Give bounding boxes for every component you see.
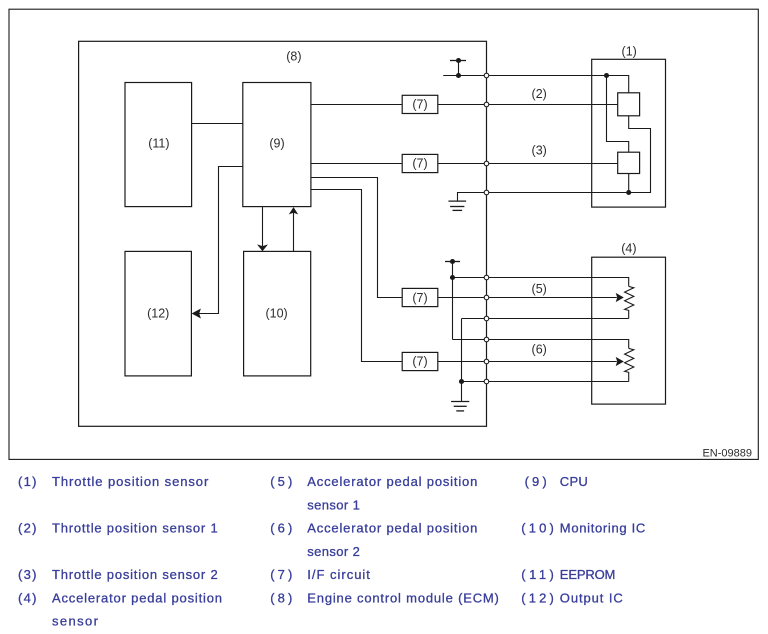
svg-text:sensor 2: sensor 2: [307, 544, 360, 559]
svg-text:(7): (7): [412, 97, 427, 111]
svg-text:Throttle position sensor 1: Throttle position sensor 1: [52, 521, 218, 536]
branch from node A to element 2: [607, 76, 629, 153]
wire 9 to IF3: [311, 178, 402, 298]
svg-text:Throttle position sensor 2: Throttle position sensor 2: [52, 567, 218, 582]
wiper arrowhead pot 2: [616, 357, 624, 366]
svg-text:(1): (1): [622, 44, 637, 58]
ground top hatch 2: [450, 206, 464, 208]
ground wire bottom vertical: [461, 319, 463, 402]
node A dot: [604, 73, 609, 78]
wire 9 to IF4: [311, 190, 402, 362]
power symbol top bar: [450, 60, 466, 62]
svg-text:(3): (3): [532, 144, 547, 158]
wire 9 to IF2: [311, 163, 402, 165]
svg-text:(4): (4): [18, 590, 37, 605]
wire power row to sensor 1: [443, 76, 629, 94]
connector pin circle row 340: [484, 337, 489, 342]
power symbol 2 bar: [445, 261, 460, 263]
arrowhead into block 12: [192, 309, 201, 319]
connector pin circle row 381: [484, 379, 489, 384]
connector pin circle row 163: [484, 161, 489, 166]
potentiometer 2 zigzag: [625, 348, 634, 381]
svg-text:(12): (12): [147, 306, 169, 320]
connector pin circle row 75: [484, 73, 489, 78]
I/F box 7 third: [402, 288, 438, 306]
arrowhead down into block 10: [257, 244, 268, 251]
wire IF2 to bus: [438, 163, 487, 165]
junction dot ground 2: [459, 379, 464, 384]
svg-text:(2): (2): [18, 521, 37, 536]
wire row return 1: [462, 318, 629, 320]
svg-text:(2): (2): [532, 87, 547, 101]
svg-text:(6): (6): [532, 343, 547, 357]
ground bottom hatch 1: [451, 401, 469, 403]
svg-text:(5): (5): [532, 282, 547, 296]
svg-text:EEPROM: EEPROM: [560, 567, 616, 582]
svg-text:(1): (1): [18, 474, 37, 489]
svg-text:(6): (6): [270, 521, 292, 536]
wire 9 to 12: [194, 167, 243, 314]
I/F box 7 second: [402, 154, 438, 172]
wire 2 bus to sensor element 1: [487, 104, 618, 106]
junction dot power top row: [456, 73, 461, 78]
svg-text:CPU: CPU: [560, 474, 588, 489]
connector pin circle row 298: [484, 295, 489, 300]
svg-text:Engine control module (ECM): Engine control module (ECM): [307, 590, 499, 605]
junction dot power 2 row: [450, 275, 455, 280]
I/F box 7 first: [402, 95, 438, 113]
svg-text:Output IC: Output IC: [560, 590, 623, 605]
svg-text:Accelerator pedal position: Accelerator pedal position: [307, 521, 477, 536]
wire row return 2: [462, 381, 629, 383]
svg-text:(10): (10): [265, 306, 287, 320]
svg-text:(7): (7): [270, 567, 292, 582]
wire row VC2: [453, 340, 629, 349]
wire 11 to 9: [192, 123, 243, 125]
junction dot power 2 bar: [450, 259, 455, 264]
connector pin circle row 278: [484, 275, 489, 280]
junction dot power top bar: [456, 58, 461, 63]
svg-text:sensor 1: sensor 1: [307, 497, 360, 512]
svg-text:(5): (5): [270, 474, 292, 489]
potentiometer 1 zigzag: [625, 286, 634, 318]
svg-text:sensor: sensor: [52, 614, 99, 629]
I/F box 7 fourth: [402, 352, 438, 370]
element 1 low side elbow: [629, 116, 651, 193]
ground bottom hatch 2: [454, 405, 467, 407]
hall element square 1: [618, 93, 640, 116]
node B dot: [626, 190, 631, 195]
EEPROM block 11: [125, 83, 192, 207]
wire ground row to sensor dot B: [487, 192, 629, 194]
arrowhead up into block 9: [289, 207, 298, 214]
svg-text:(11): (11): [148, 137, 169, 151]
element 2 low side: [628, 174, 630, 193]
connector pin circle row 192: [484, 190, 489, 195]
connector pin circle row 104: [484, 102, 489, 107]
svg-text:(7): (7): [412, 157, 427, 171]
svg-text:I/F circuit: I/F circuit: [307, 567, 370, 582]
connector pin circle row 318: [484, 316, 489, 321]
svg-text:Throttle position sensor: Throttle position sensor: [52, 474, 209, 489]
hall element square 2: [618, 152, 640, 173]
CPU block 9: [243, 83, 311, 207]
svg-text:(9): (9): [269, 137, 284, 151]
outer frame: [9, 9, 758, 459]
pedal sensor block 4: [592, 257, 666, 404]
svg-text:(7): (7): [412, 354, 427, 368]
ground bottom hatch 3: [456, 410, 464, 412]
wire row signal 6: [438, 361, 617, 363]
svg-text:(4): (4): [621, 241, 636, 255]
svg-text:(9): (9): [525, 474, 547, 489]
wire 9 to IF1: [311, 104, 402, 106]
ground wire top: [458, 193, 487, 202]
wire 3 bus to sensor element 2: [487, 163, 618, 165]
Output IC block 12: [125, 251, 191, 376]
Monitoring IC block 10: [244, 251, 311, 376]
throttle sensor block 1: [592, 59, 666, 207]
ground top hatch 1: [448, 200, 466, 202]
svg-text:EN-09889: EN-09889: [702, 448, 752, 460]
svg-text:(3): (3): [18, 567, 37, 582]
wiper arrowhead pot 1: [616, 293, 624, 302]
wire 9 to 10 down: [262, 207, 264, 246]
svg-text:Accelerator pedal position: Accelerator pedal position: [52, 590, 222, 605]
power symbol 2 stub: [452, 262, 454, 340]
wire row signal 5: [438, 297, 617, 299]
svg-text:(8): (8): [270, 590, 292, 605]
wire row VC1: [453, 278, 629, 287]
connector pin circle row 361: [484, 359, 489, 364]
ground top hatch 3: [453, 209, 463, 211]
svg-text:(8): (8): [286, 49, 301, 63]
ECM box (8): [79, 41, 487, 426]
svg-text:Accelerator pedal position: Accelerator pedal position: [307, 474, 477, 489]
power symbol stub: [458, 61, 460, 76]
wire IF1 to bus: [438, 104, 487, 106]
svg-text:Monitoring IC: Monitoring IC: [560, 521, 646, 536]
svg-text:(7): (7): [412, 291, 427, 305]
wire 10 to 9 up: [293, 213, 295, 252]
